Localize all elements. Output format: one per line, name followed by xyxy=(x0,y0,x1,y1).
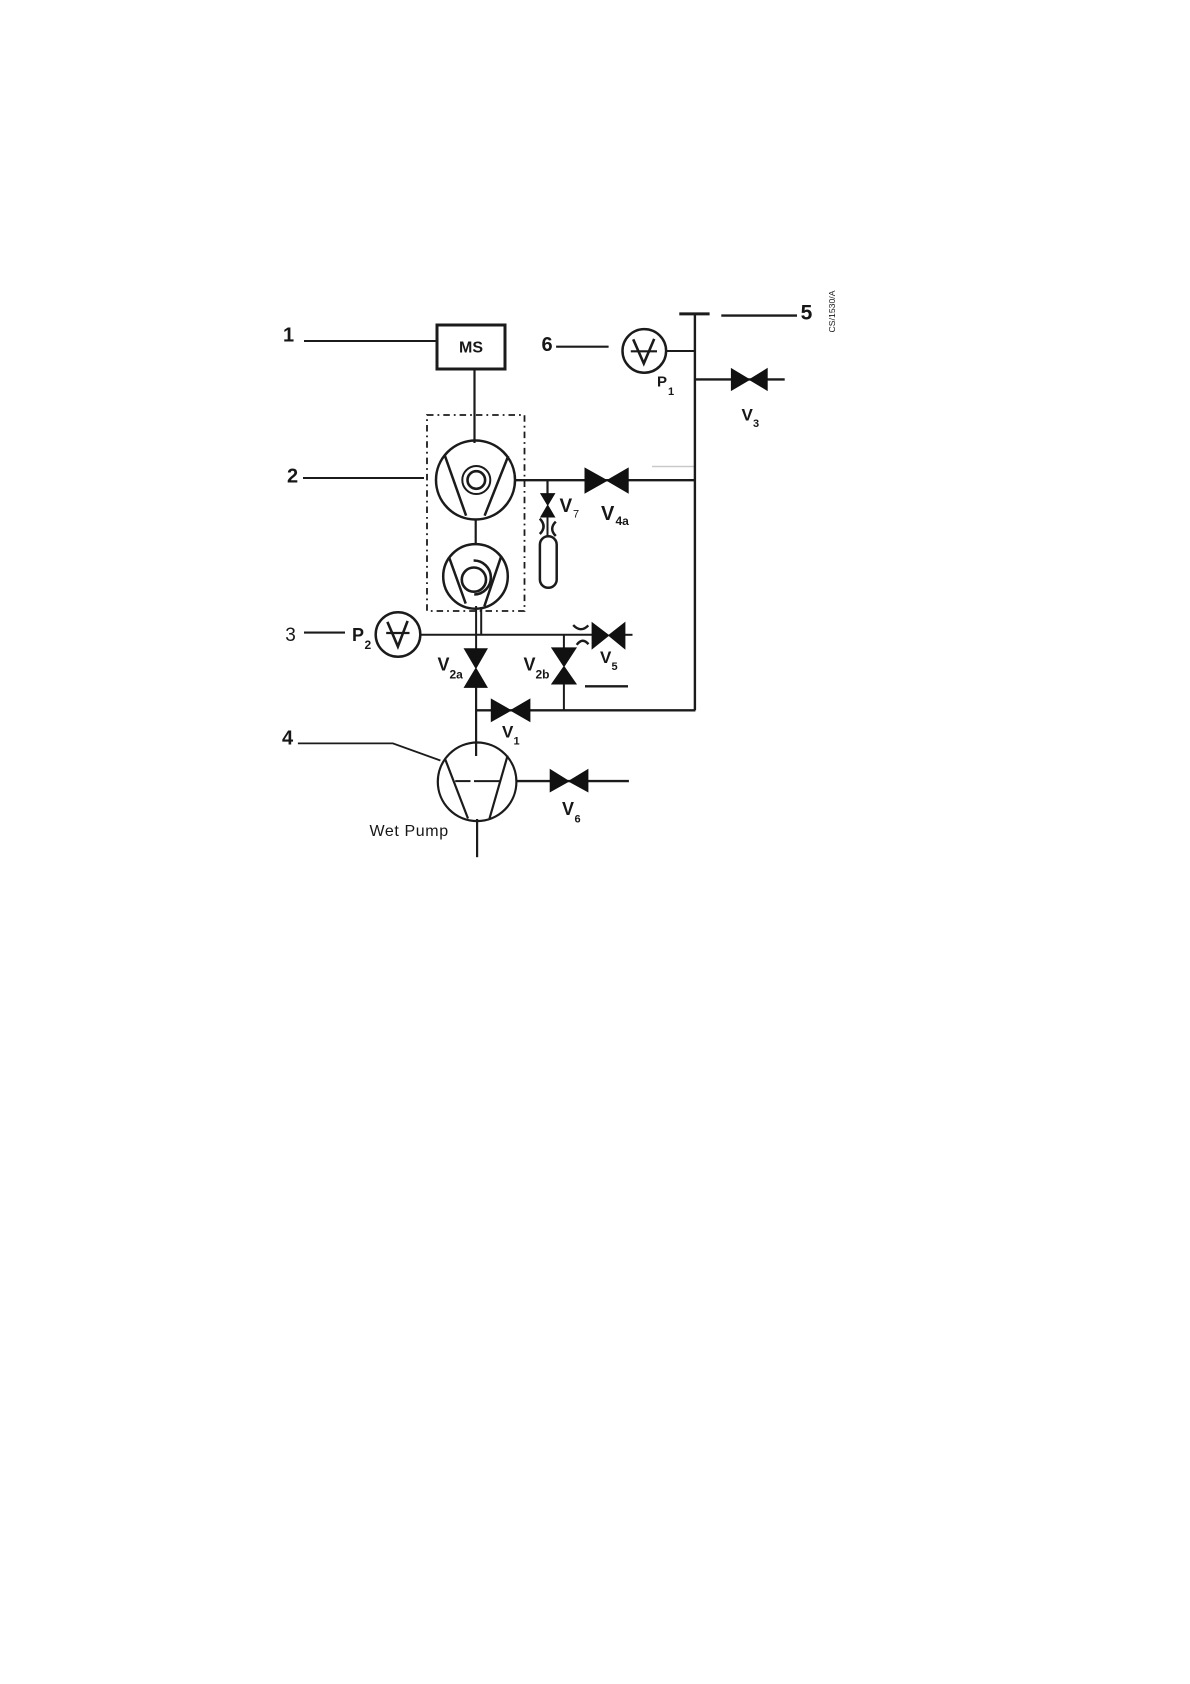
valve V7 xyxy=(541,494,555,517)
wire leader 2 to enclosure xyxy=(303,477,424,479)
valve V3 xyxy=(731,369,767,391)
svg-text:P: P xyxy=(657,374,667,391)
wire leader 6 to P1 xyxy=(556,346,609,348)
pump 1 left vane xyxy=(445,455,466,516)
wire pump1 outlet to main riser xyxy=(516,479,695,481)
svg-text:V: V xyxy=(562,799,574,819)
gauge P1 xyxy=(623,329,667,373)
svg-text:P: P xyxy=(352,625,364,645)
riser top tick xyxy=(679,312,709,315)
svg-text:V: V xyxy=(502,723,514,742)
flexible joint before V5 xyxy=(573,625,588,629)
pump 1 rotor outer circle xyxy=(462,466,490,494)
pump 1 rotor inner circle xyxy=(468,471,486,489)
wet pump exhaust stem xyxy=(476,819,478,857)
main riser line xyxy=(694,315,696,710)
svg-text:V: V xyxy=(601,503,615,525)
svg-text:V: V xyxy=(600,648,612,667)
svg-text:4a: 4a xyxy=(616,514,630,528)
wire pump1 to pump2 xyxy=(475,520,477,545)
vent dash xyxy=(585,685,628,687)
svg-text:V: V xyxy=(524,655,536,675)
valve V2b xyxy=(552,648,576,684)
wire V7 to flex joint xyxy=(547,517,549,537)
svg-text:1: 1 xyxy=(668,386,674,398)
svg-text:MS: MS xyxy=(459,340,483,357)
wire V2a down into wet pump xyxy=(475,687,477,756)
backing line to riser xyxy=(476,709,695,711)
svg-text:3: 3 xyxy=(753,418,759,430)
pump 2 scroll inner circle xyxy=(462,568,486,592)
svg-text:V: V xyxy=(438,655,450,675)
valve V1 xyxy=(491,699,530,721)
pump 2 (drag stage, lower circle) xyxy=(443,544,508,609)
wire down to V2b xyxy=(563,635,565,649)
svg-text:Wet Pump: Wet Pump xyxy=(370,823,449,840)
svg-text:7: 7 xyxy=(573,509,579,521)
svg-text:1: 1 xyxy=(283,325,294,347)
svg-text:4: 4 xyxy=(282,727,294,749)
svg-text:5: 5 xyxy=(612,661,618,673)
mass spectrometer box MS xyxy=(437,325,505,369)
wire branch down to V7 xyxy=(546,480,548,494)
svg-text:CS/1530/A: CS/1530/A xyxy=(827,290,837,332)
svg-text:2a: 2a xyxy=(450,668,464,682)
pump 1 (turbo pump, upper circle) xyxy=(436,441,515,520)
wet pump left vane xyxy=(445,760,468,819)
gauge P2 xyxy=(376,612,421,657)
pump 1 right vane xyxy=(485,456,509,516)
flexible joint below V7 xyxy=(540,519,544,534)
wire wet pump to V6 xyxy=(516,780,629,782)
svg-text:V: V xyxy=(742,406,754,425)
wet pump right vane xyxy=(490,756,508,819)
valve V2a xyxy=(464,649,487,688)
valve V4a xyxy=(585,468,628,493)
wire V2b down to V1 line xyxy=(563,684,565,710)
wire leader 3 to P2 xyxy=(304,632,345,634)
svg-text:V: V xyxy=(560,496,573,517)
svg-text:6: 6 xyxy=(541,334,552,356)
svg-text:2: 2 xyxy=(287,466,298,488)
gas cylinder below V7 xyxy=(540,536,557,588)
wire V5 stub xyxy=(625,634,633,636)
wire leader to 5 xyxy=(721,314,797,316)
svg-text:1: 1 xyxy=(514,736,520,748)
pump 2 right vane xyxy=(484,556,501,607)
wire P1 to riser xyxy=(666,350,695,352)
svg-text:2b: 2b xyxy=(536,668,550,682)
pump 2 left vane xyxy=(449,557,466,604)
wet pump circle xyxy=(438,743,517,822)
faint erased line artifact xyxy=(652,466,694,468)
valve V6 xyxy=(550,770,588,792)
wire MS to pump stack xyxy=(473,369,475,443)
pump 2 exhaust twin lines xyxy=(475,606,477,649)
dashed enclosure around pump stack xyxy=(427,415,525,611)
wet pump liquid level dashes xyxy=(455,780,470,782)
svg-text:2: 2 xyxy=(365,638,372,652)
svg-text:6: 6 xyxy=(575,814,581,826)
wire leader 1 to MS xyxy=(304,340,436,342)
svg-text:5: 5 xyxy=(801,302,813,325)
pump 2 scroll arc xyxy=(474,560,491,594)
valve V5 xyxy=(592,623,625,649)
wire riser to V3 xyxy=(695,378,785,380)
wire P2 to backing line xyxy=(420,634,592,636)
wire leader 4 to wet pump xyxy=(298,743,441,760)
svg-text:3: 3 xyxy=(285,625,296,646)
